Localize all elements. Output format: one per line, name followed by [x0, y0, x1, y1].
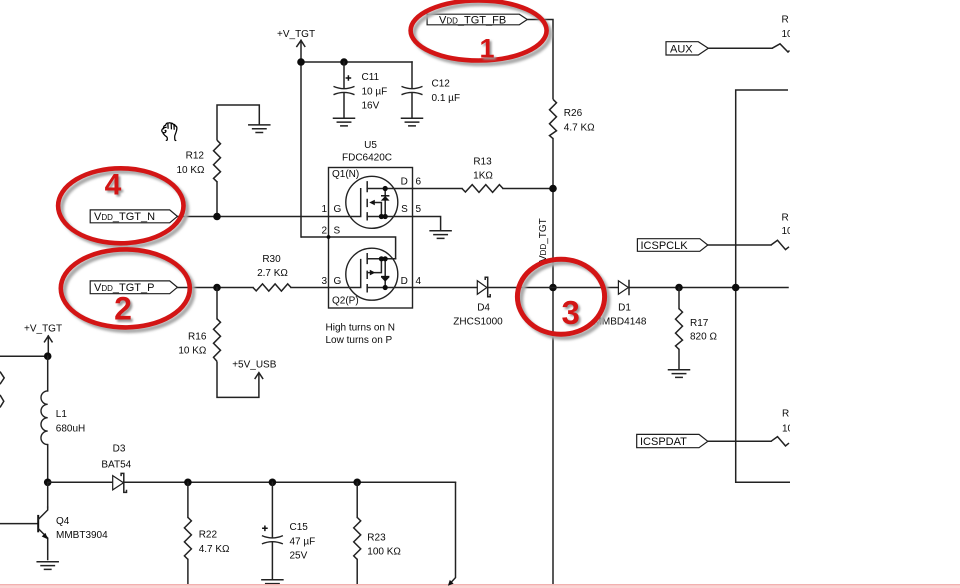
svg-text:ICSPCLK: ICSPCLK: [641, 240, 689, 252]
node junction at (47.7,356.2): [44, 352, 52, 360]
wire R16 bottom to +5V_USB arrow: [217, 361, 259, 397]
svg-text:+V_TGT: +V_TGT: [277, 29, 315, 40]
svg-text:G: G: [334, 276, 342, 287]
transistor Q2 P-channel MOSFET: [329, 248, 413, 300]
resistor R13 1KOhm: [462, 157, 503, 193]
svg-text:3: 3: [562, 294, 580, 331]
resistor R26 4.7 KOhm: [550, 99, 596, 138]
svg-text:2: 2: [114, 291, 132, 327]
wire pin5 S to ground: [413, 217, 441, 231]
annotation ellipse 1 shadow: [414, 4, 550, 64]
wire AUX row: [708, 47, 772, 49]
wire R12 bottom to N row: [216, 182, 218, 217]
svg-text:680uH: 680uH: [56, 423, 85, 434]
svg-text:1: 1: [321, 204, 327, 215]
cursor hand icon: [162, 123, 177, 141]
node junction at (344,62): [340, 58, 348, 66]
wire R12 top to ground stub: [217, 105, 259, 140]
svg-text:C15: C15: [290, 522, 309, 533]
wire bottom rail D3 to corner: [124, 481, 456, 483]
wire ICSPDAT row: [708, 440, 771, 442]
svg-text:4.7 KΩ: 4.7 KΩ: [199, 544, 230, 555]
op-amp U5 FDC6420C box: [329, 140, 413, 308]
svg-text:Q2(P): Q2(P): [332, 296, 359, 307]
capacitor C15 47uF 25V: [262, 482, 315, 579]
svg-text:100 KΩ: 100 KΩ: [367, 547, 401, 558]
svg-text:R17: R17: [690, 318, 709, 329]
svg-text:R22: R22: [199, 530, 218, 541]
svg-text:R13: R13: [473, 157, 492, 168]
node junction at (47.7,482.3): [44, 479, 52, 487]
svg-text:R: R: [782, 212, 789, 223]
wire VDD_TGT_FB to rail: [527, 20, 553, 100]
wire node to L1: [47, 356, 49, 391]
svg-text:AUX: AUX: [670, 43, 693, 55]
node junction at (187.9,482.3): [184, 479, 192, 487]
resistor fragment at left edge (bottom): [0, 395, 4, 408]
node junction at (553,287.5): [549, 284, 557, 292]
svg-text:2.7 KΩ: 2.7 KΩ: [257, 268, 288, 279]
svg-text:G: G: [334, 204, 342, 215]
svg-text:C12: C12: [432, 79, 451, 90]
svg-text:R: R: [782, 15, 789, 26]
svg-text:6: 6: [416, 177, 422, 188]
transistor Q4 MMBT3904: [0, 482, 108, 559]
svg-text:D4: D4: [477, 303, 490, 314]
net label VDD_TGT_P: [90, 281, 177, 294]
node junction at (301,62): [297, 58, 305, 66]
annotation numeral 4: [105, 168, 124, 203]
pin 1 G label: [321, 204, 341, 215]
svg-text:+5V_USB: +5V_USB: [232, 359, 277, 370]
svg-text:1KΩ: 1KΩ: [473, 171, 493, 182]
pin 2 S label: [321, 226, 340, 237]
svg-text:L1: L1: [56, 409, 68, 420]
wire +V_TGT rail down to U5 pin2: [300, 62, 302, 237]
wire D4 to D1: [488, 287, 619, 289]
wire R30 to U5 pin3: [291, 287, 329, 289]
svg-text:R: R: [782, 409, 789, 420]
diode D4 ZHCS1000: [413, 277, 504, 327]
annotation ellipse 3 shadow: [521, 263, 608, 338]
net label AUX: [666, 42, 708, 56]
svg-text:R26: R26: [564, 108, 583, 119]
node pin2 at box edge: [327, 235, 331, 239]
annotation ellipse 2 shadow: [64, 253, 193, 331]
svg-text:S: S: [401, 204, 408, 215]
wire ICSPCLK row: [708, 244, 771, 246]
svg-text:ICSPDAT: ICSPDAT: [640, 436, 687, 448]
transistor Q1 N-channel MOSFET: [329, 176, 413, 228]
svg-text:820 Ω: 820 Ω: [690, 332, 717, 343]
pin 3 G label: [321, 276, 341, 287]
svg-text:D3: D3: [113, 444, 126, 455]
resistor R17 820 Ohm: [676, 309, 718, 350]
svg-text:VDD_TGT_N: VDD_TGT_N: [94, 211, 155, 223]
node junction at (217,287.5): [213, 284, 221, 292]
node junction at (272.4,482.3): [269, 479, 277, 487]
note text high/low: [326, 323, 395, 347]
diode D1 MMBD4148: [594, 281, 647, 328]
wire U5 pin2 internal to Q2: [301, 237, 396, 259]
wire bottom rail left of D3: [48, 481, 113, 483]
svg-text:10 µF: 10 µF: [362, 87, 388, 98]
white clip region on right side: [790, 0, 960, 588]
annotation numeral 3: [562, 294, 582, 333]
svg-text:10 KΩ: 10 KΩ: [178, 346, 207, 357]
diode D3 BAT54: [101, 444, 131, 493]
power symbol +V_TGT (top): [277, 29, 315, 62]
svg-text:4: 4: [416, 276, 422, 287]
wire R22 bottom: [187, 559, 189, 584]
svg-text:FDC6420C: FDC6420C: [342, 153, 392, 164]
wire left edge to +V_TGT node: [0, 355, 48, 357]
svg-text:VDD_TGT: VDD_TGT: [538, 218, 549, 262]
svg-text:D: D: [401, 276, 408, 287]
svg-text:25V: 25V: [290, 551, 308, 562]
svg-text:VDD_TGT_FB: VDD_TGT_FB: [439, 14, 506, 26]
svg-text:+V_TGT: +V_TGT: [24, 324, 62, 335]
net label ICSPDAT: [637, 434, 708, 448]
wire VDD_TGT_N row: [177, 216, 328, 218]
svg-text:U5: U5: [364, 140, 377, 151]
svg-text:D: D: [401, 177, 408, 188]
power symbol +V_TGT (bottom): [24, 324, 62, 357]
svg-text:Q4: Q4: [56, 516, 70, 527]
svg-text:1: 1: [479, 33, 494, 63]
svg-text:5: 5: [416, 204, 422, 215]
svg-text:High turns on N: High turns on N: [326, 323, 395, 334]
net label VDD_TGT_FB: [427, 14, 527, 26]
svg-text:4: 4: [105, 168, 122, 201]
resistor R16 10 KOhm: [178, 319, 220, 362]
resistor R23 100 KOhm: [354, 482, 402, 584]
inductor L1 680uH: [41, 391, 85, 445]
ground (below C11): [334, 118, 355, 126]
svg-text:S: S: [334, 226, 341, 237]
wire R17 top: [678, 288, 680, 309]
pink band at bottom: [0, 584, 960, 588]
svg-text:D1: D1: [618, 303, 631, 314]
node junction at (357.2,482.3): [353, 479, 361, 487]
svg-text:ZHCS1000: ZHCS1000: [453, 316, 503, 327]
ground (near R12): [249, 125, 270, 133]
capacitor C11 10uF 16V: [334, 62, 388, 118]
node junction at (553,188.5): [549, 185, 557, 193]
annotation numeral 1: [479, 33, 496, 65]
capacitor C12 0.1uF: [402, 62, 461, 118]
svg-text:0.1 µF: 0.1 µF: [432, 93, 461, 104]
wire bottom rail corner down-arrow: [448, 482, 456, 586]
svg-text:C11: C11: [362, 72, 380, 83]
resistor R30 2.7 KOhm: [253, 254, 291, 291]
svg-text:MMBT3904: MMBT3904: [56, 530, 108, 541]
wire R13 to VDD_TGT rail: [503, 188, 553, 190]
resistor (ICSPCLK, clipped): [771, 212, 793, 249]
resistor (AUX, clipped): [772, 15, 793, 52]
svg-text:3: 3: [321, 276, 327, 287]
node junction at (217,216.5): [213, 213, 221, 221]
svg-text:R23: R23: [367, 532, 386, 543]
annotation ellipse 4: [58, 168, 183, 243]
ground (pin 5): [430, 231, 451, 239]
resistor fragment at left edge (top): [0, 372, 4, 385]
power symbol +5V_USB: [232, 359, 277, 378]
annotation numeral 2: [114, 291, 134, 329]
svg-text:R30: R30: [262, 254, 281, 265]
annotation ellipse 1: [411, 1, 547, 61]
resistor R12 10 KOhm: [176, 140, 220, 182]
node junction at (679,287.5): [675, 284, 683, 292]
svg-text:4.7 KΩ: 4.7 KΩ: [564, 122, 595, 133]
svg-text:2: 2: [321, 226, 327, 237]
ground (below R17): [669, 370, 690, 378]
annotation ellipse 4 shadow: [61, 172, 186, 247]
wire VDD_TGT vertical rail: [552, 139, 554, 584]
ground (below C15): [262, 580, 283, 588]
net label VDD_TGT_N: [90, 210, 177, 223]
svg-text:10 KΩ: 10 KΩ: [176, 165, 205, 176]
wire VDD_TGT_P row (left of R30): [177, 287, 253, 289]
svg-text:47 µF: 47 µF: [290, 536, 316, 547]
wire D1 to right rail: [629, 287, 788, 289]
wire R22 top: [187, 482, 189, 517]
svg-text:R12: R12: [186, 151, 205, 162]
resistor R22 4.7 KOhm: [184, 517, 230, 559]
pin 5 S label: [401, 204, 421, 215]
annotation ellipse 3: [517, 259, 604, 334]
svg-text:R16: R16: [188, 332, 207, 343]
wire top +V_TGT row: [301, 61, 412, 63]
pin 6 D label: [401, 177, 422, 188]
ground (below C12): [402, 118, 423, 126]
pin 4 D label: [401, 276, 422, 287]
wire R17 bottom: [678, 349, 680, 369]
wire pin6 D to R13: [413, 188, 463, 190]
svg-text:16V: 16V: [362, 101, 380, 112]
wire top right corner row: [736, 90, 790, 482]
net label ICSPCLK: [637, 239, 707, 252]
node junction at (735.7,287.5): [732, 284, 740, 292]
annotation ellipse 2: [61, 249, 190, 327]
wire R16 top: [216, 288, 218, 319]
wire L1 to bottom rail: [47, 445, 49, 483]
resistor (ICSPDAT, clipped): [771, 409, 794, 446]
svg-text:Q1(N): Q1(N): [332, 169, 359, 180]
svg-text:BAT54: BAT54: [101, 460, 131, 471]
ground (Q4 emitter): [37, 562, 58, 570]
svg-text:Low turns on P: Low turns on P: [326, 335, 393, 346]
